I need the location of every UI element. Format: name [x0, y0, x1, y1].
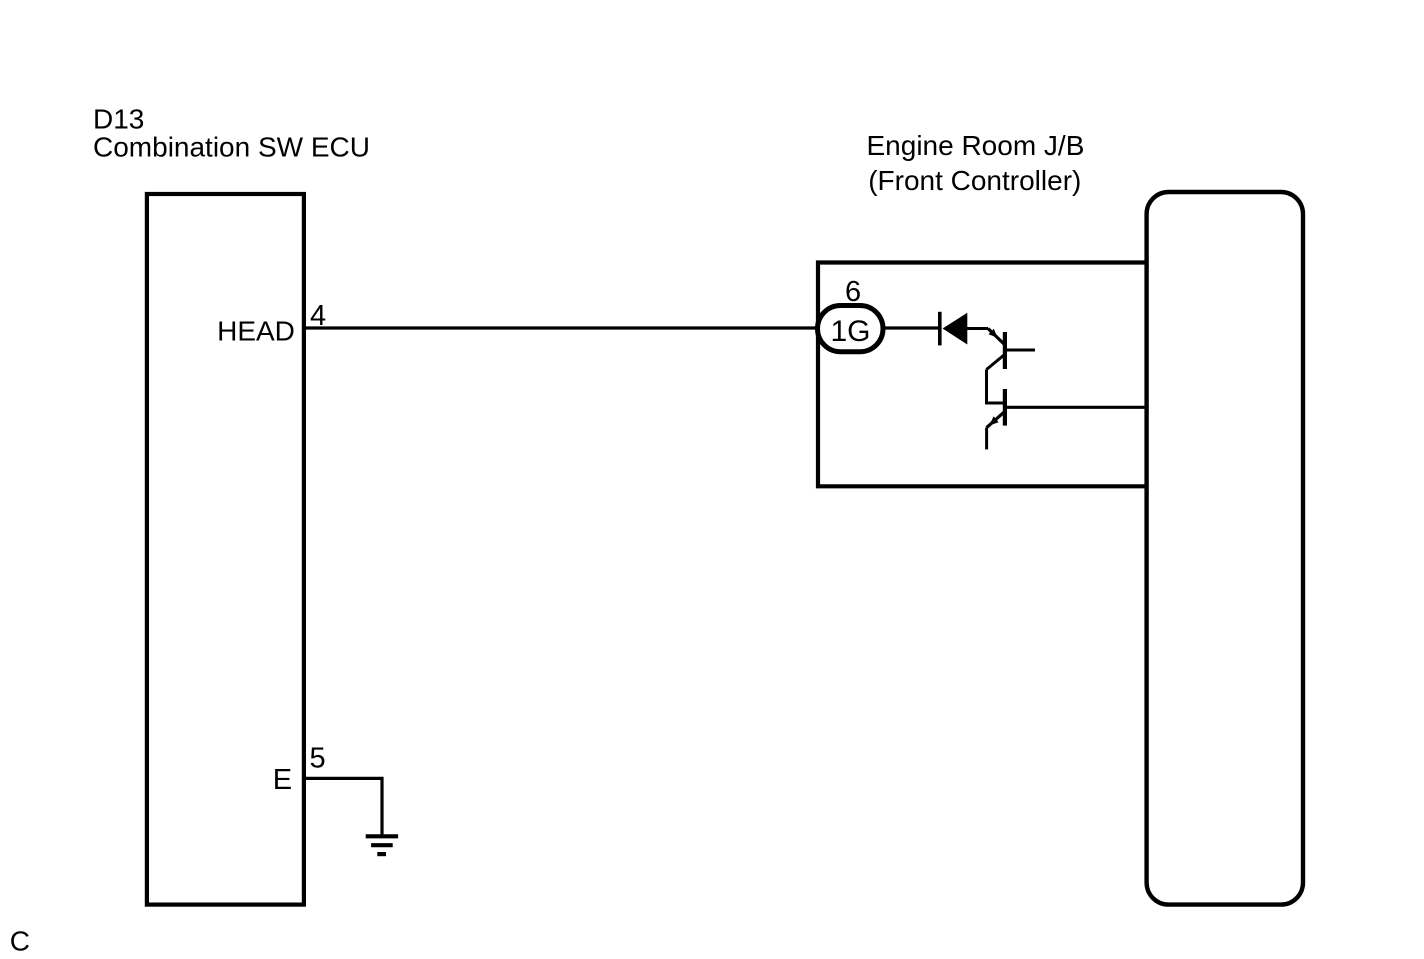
- pin number 5: [310, 743, 326, 775]
- svg-text:(Front Controller): (Front Controller): [868, 165, 1081, 196]
- junction block inner box: [818, 263, 1147, 487]
- svg-text:5: 5: [310, 743, 326, 775]
- wire Q2 emitter stub: [985, 428, 988, 450]
- svg-text:E: E: [273, 764, 292, 796]
- svg-text:Combination SW ECU: Combination SW ECU: [93, 132, 370, 163]
- pin label HEAD: [217, 316, 295, 347]
- wire E pin 5 to ground: [304, 778, 382, 836]
- wire 1G to diode: [883, 326, 939, 329]
- svg-text:HEAD: HEAD: [217, 316, 295, 347]
- wire Q1 collector to Q2 base: [987, 370, 1004, 404]
- wire HEAD pin 4 to connector 1G: [304, 326, 818, 329]
- front controller rounded box: [1147, 192, 1303, 905]
- ground: [366, 836, 398, 854]
- label: connector D13 title: [93, 103, 370, 162]
- transistor Q1 (upper, emitter arrow into base bar): [987, 329, 1036, 370]
- ECU box D13 (Combination SW ECU): [147, 194, 304, 905]
- svg-text:C: C: [10, 926, 30, 957]
- transistor Q2 (lower, emitter arrow outward): [987, 389, 1005, 428]
- svg-text:D13: D13: [93, 103, 144, 134]
- connector oval 1G: [818, 306, 884, 352]
- pin number 4: [310, 300, 326, 332]
- wire diode to transistor Q1 emitter: [967, 327, 988, 330]
- page marker C: [10, 926, 30, 957]
- label: Engine Room J/B (Front Controller): [867, 130, 1085, 196]
- pin label E: [273, 764, 292, 796]
- pin number 6: [845, 276, 861, 308]
- svg-text:Engine Room J/B: Engine Room J/B: [867, 130, 1085, 161]
- wire Q2 collector to front controller: [1006, 406, 1146, 409]
- diode D1 (cathode bar + filled triangle): [940, 312, 968, 346]
- svg-text:1G: 1G: [830, 315, 870, 348]
